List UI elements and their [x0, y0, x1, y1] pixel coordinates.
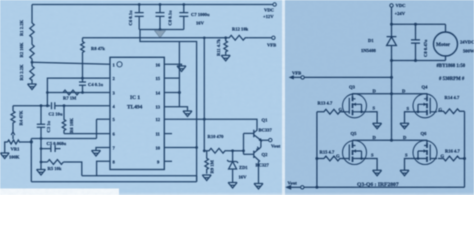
node dots lower network	[30, 104, 66, 163]
ground below R5 node	[37, 170, 46, 176]
capacitor C4	[79, 78, 86, 92]
potentiometer VR1 body	[8, 140, 20, 144]
wire Vout terminal lead	[290, 186, 301, 188]
wire R1-R2	[31, 38, 33, 45]
wire R5 line	[41, 161, 47, 163]
transistor Q6 IRF2807	[410, 140, 437, 165]
wire pin16 ground stub	[164, 64, 181, 66]
diode ZD1 zener	[227, 160, 238, 183]
wire main +24 vertical	[391, 7, 393, 140]
resistor R5	[47, 160, 63, 165]
node pin14 bus dot	[178, 91, 181, 94]
wire VFB sense	[292, 76, 392, 78]
diode D1 1N5408	[387, 37, 397, 46]
bottom edge light strip	[119, 193, 474, 195]
ground Q6 source	[400, 170, 409, 176]
ground below VR1	[0, 153, 9, 159]
capacitor C8	[411, 24, 420, 60]
resistor R12	[226, 35, 249, 40]
wire R3 to ground	[31, 79, 33, 84]
capacitor C6	[135, 5, 144, 30]
node drive dots	[195, 37, 245, 153]
wire pin12 drive line	[164, 118, 204, 120]
wire Q4 source to ground	[405, 112, 411, 124]
bottom white strip	[0, 189, 119, 196]
ground pin16	[177, 66, 186, 72]
wire pin6 line	[64, 133, 110, 135]
ground below R3	[28, 84, 37, 90]
wire Q2 base lead	[244, 153, 254, 155]
capacitor C6b	[156, 5, 165, 30]
resistor R16	[438, 156, 465, 161]
ground Q5 source	[373, 170, 382, 176]
ic IC1 TL494 box	[110, 57, 164, 169]
wire bottom Vout rail	[304, 186, 465, 188]
left panel background	[0, 0, 283, 195]
wire pin5 line	[97, 118, 111, 120]
resistor R2	[30, 45, 34, 59]
resistor R11	[224, 38, 228, 56]
node R11/R12 junction	[224, 36, 227, 39]
wire Q1 base lead	[244, 132, 254, 134]
wire top +12V rail	[32, 4, 273, 6]
transistor Q2 BC327	[254, 147, 261, 184]
wire R1 top lead	[31, 5, 33, 24]
wire pin7 ground stub	[96, 148, 110, 151]
node pin2/pin3 junction dots	[46, 77, 84, 107]
wire R10 to base bus	[229, 150, 244, 152]
node gate bus dots	[315, 157, 466, 189]
wire base bus	[243, 133, 245, 154]
ground pin13	[183, 111, 192, 117]
ground below ZD1	[228, 183, 237, 189]
node right panel dots	[390, 23, 417, 142]
node R2/R3 junction	[31, 61, 34, 64]
resistor R15	[317, 156, 344, 161]
node top rail dots	[138, 3, 185, 31]
capacitor C3	[37, 106, 45, 139]
wire ground rail upper	[82, 175, 197, 177]
wire gate bus left	[316, 112, 318, 188]
wire +24 top branch	[392, 23, 446, 25]
ground wide grey arrow at cap bus	[155, 31, 166, 38]
potentiometer VR1 wiper	[11, 124, 15, 139]
wire Q1 collector feed	[204, 119, 257, 127]
wire bridge top rail	[353, 93, 428, 95]
resistor R6	[62, 106, 66, 134]
resistor R10	[204, 148, 228, 153]
wire pin2 line	[47, 78, 110, 106]
terminal VDC +12V	[273, 3, 276, 6]
ground below R11	[221, 55, 230, 61]
resistor R13	[317, 109, 344, 114]
terminal VDC +24V	[390, 4, 393, 7]
resistor R8	[81, 38, 85, 53]
wire cap ground bus	[139, 29, 184, 31]
pin 1 marker circle	[117, 62, 122, 67]
motor M body	[434, 32, 458, 56]
ground pin7	[92, 151, 101, 157]
terminal Vout arrow	[285, 185, 291, 190]
wire Q3 source to ground	[369, 112, 377, 124]
wire pin9 stub	[164, 160, 172, 162]
wire line B down from cap bus	[140, 30, 197, 182]
wire gate bus right	[464, 111, 466, 187]
ground below R9	[202, 175, 211, 181]
wire VR1 left to ground	[5, 142, 8, 153]
wire rail join stub	[196, 176, 198, 182]
ground below Q2	[254, 184, 263, 190]
wire pin15 stub to bus	[164, 77, 179, 79]
motor M bottom lead	[445, 57, 447, 61]
terminal VFB left panel	[272, 36, 275, 39]
wire pin11 stub	[164, 133, 172, 135]
wire C3 ground chain	[40, 139, 42, 163]
wire pin10 line to bus	[164, 147, 196, 149]
wire zener stem	[232, 151, 234, 162]
transistor Q3 IRF2807	[343, 93, 370, 118]
capacitor C5	[41, 145, 61, 152]
wire R2-R3	[31, 59, 33, 66]
capacitor C7	[179, 5, 188, 30]
wire pin5 descender	[96, 119, 98, 138]
wire R4 lead	[12, 106, 14, 111]
wire R8 bottom to pin2 line	[82, 53, 84, 78]
capacitor C2	[52, 102, 55, 109]
panel gap	[282, 0, 285, 195]
wire R12 to VFB terminal	[249, 37, 272, 39]
wire line A (VFB feedback)	[83, 37, 226, 39]
wire ref bus vertical	[178, 42, 180, 107]
wire emitter join	[261, 140, 269, 147]
wire left bus vertical	[30, 139, 32, 182]
wire C5 node line	[31, 138, 96, 140]
resistor R3	[30, 66, 34, 80]
wire pin8 line	[97, 161, 110, 175]
wire Q6 source to ground	[405, 159, 411, 171]
texture overlay	[0, 0, 1, 1]
wire ground stem below R5 node	[40, 162, 42, 170]
wire bridge mid rail	[353, 139, 428, 141]
resistor R4	[11, 111, 15, 124]
wire R5 to bottom rail	[63, 162, 81, 176]
resistor R9	[205, 151, 209, 174]
wire pin14 stub	[164, 92, 179, 94]
wire pin1 line	[32, 62, 110, 64]
wire node-X pin4 line	[13, 105, 110, 107]
wire motor bottom branch	[392, 60, 446, 62]
motor M top lead	[445, 24, 447, 31]
transistor Q5 IRF2807	[343, 140, 370, 165]
right panel background	[285, 0, 474, 195]
wire Q5 source to ground	[369, 159, 377, 171]
resistor R14	[438, 109, 465, 114]
terminal Vout driver	[269, 138, 272, 141]
ground Q3 source	[373, 123, 382, 129]
wire VR1 right to bus	[20, 141, 31, 143]
resistor R7	[63, 90, 79, 95]
ground Q4 source	[400, 123, 409, 129]
transistor Q4 IRF2807	[410, 93, 437, 118]
transistor Q1 BC337	[254, 128, 261, 141]
terminal Vout circle	[301, 186, 304, 189]
wire ground rail lower	[31, 181, 196, 183]
wire pin13 stub	[164, 107, 187, 111]
node VFB arrowhead	[289, 75, 294, 79]
wire V2 drive vertical	[203, 38, 205, 151]
wire pin3 line	[47, 92, 110, 94]
resistor R1	[30, 22, 34, 38]
